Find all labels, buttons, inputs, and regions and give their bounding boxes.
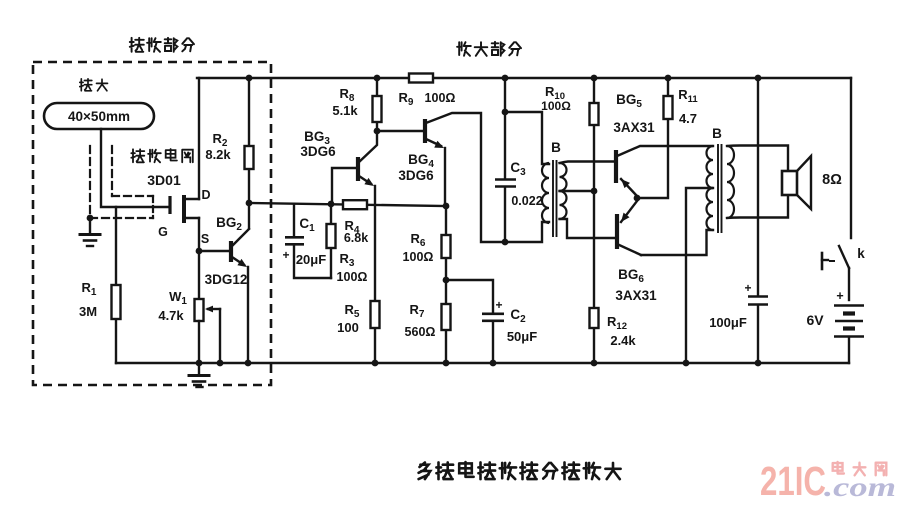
wire drain to top rail: [198, 78, 200, 199]
svg-text:2.4k: 2.4k: [610, 333, 636, 348]
wire R8 branch: [376, 78, 378, 131]
capacitor 100uF: [748, 295, 768, 298]
BG2 emitter diagonal: [232, 257, 244, 265]
FET source lead: [184, 217, 199, 219]
transistor FET 3D01 channel bar: [182, 195, 186, 223]
wire top supply rail: [197, 77, 851, 79]
svg-text:20μF: 20μF: [296, 252, 326, 267]
svg-text:50μF: 50μF: [507, 329, 537, 344]
node R10 top rail: [591, 75, 598, 82]
transformer B1 core: [552, 160, 554, 237]
transistor FET 3D01 gate bar: [168, 196, 171, 214]
svg-text:6.8k: 6.8k: [344, 231, 368, 245]
node R11 top rail: [665, 75, 672, 82]
node emitters junction: [634, 195, 641, 202]
resistor R9: [409, 74, 433, 83]
node ground rail junction: [490, 360, 497, 367]
capacitor C2: [446, 280, 493, 313]
wire BG2 base lead: [199, 250, 229, 252]
wire wiper to ground rail: [219, 309, 221, 363]
svg-text:D: D: [201, 188, 210, 202]
svg-text:100μF: 100μF: [709, 315, 747, 330]
resistor R3: [327, 224, 336, 248]
wire R3 branch: [330, 204, 332, 278]
capacitor C1: [293, 204, 295, 236]
svg-text:100: 100: [337, 320, 359, 335]
resistor R8: [373, 96, 382, 122]
resistor R11: [664, 96, 673, 119]
transformer B2 core: [717, 144, 719, 233]
resistor R1: [112, 285, 121, 319]
node shield ground junction: [87, 215, 94, 222]
wire B2 centre tap to rail: [686, 188, 713, 363]
svg-text:21IC: 21IC: [760, 458, 826, 504]
capacitor C3: [495, 178, 516, 181]
wire switch to battery: [848, 268, 850, 300]
svg-text:.com: .com: [824, 472, 896, 502]
probe plate 40x50mm: [44, 103, 154, 129]
wire right edge down to switch: [850, 78, 852, 238]
BG4 emitter diagonal: [426, 139, 441, 146]
wire C3 branch: [504, 78, 506, 179]
svg-text:4.7: 4.7: [679, 111, 697, 126]
wire secondary to speaker top: [727, 146, 788, 172]
wire BG2 emitter to rail: [247, 267, 249, 363]
wire bottom ground rail: [116, 362, 849, 364]
wire source down to potentiometer: [198, 218, 200, 299]
shield dashed line left: [89, 146, 91, 217]
svg-text:3DG6: 3DG6: [398, 168, 434, 183]
svg-text:+: +: [282, 248, 289, 262]
transistor BG5 base bar: [614, 150, 618, 183]
label jieshou bufen (receiving section): [130, 38, 194, 52]
svg-text:+: +: [744, 281, 751, 295]
transistor BG2 base bar: [229, 241, 233, 262]
label fangda bufen (amplifier section): [457, 42, 521, 56]
wire to transformer primary top: [505, 112, 549, 164]
wire R10 branch: [593, 78, 595, 191]
BG4 collector diagonal: [426, 113, 505, 242]
svg-text:8.2k: 8.2k: [205, 147, 231, 162]
svg-text:S: S: [201, 232, 209, 246]
wire R12 branch: [593, 191, 595, 363]
BG5 emitter diagonal: [621, 179, 637, 196]
wire BG3 emitter down through R5: [374, 186, 376, 363]
resistor R5: [371, 301, 380, 328]
receiving section dashed border: [33, 62, 271, 385]
svg-text:560Ω: 560Ω: [405, 325, 436, 339]
shield dashed right: [152, 196, 154, 218]
node ground rail junction: [591, 360, 598, 367]
resistor R6: [442, 235, 451, 258]
speaker 8 ohm: [782, 171, 797, 195]
node centre tap: [591, 188, 598, 195]
svg-text:3AX31: 3AX31: [613, 120, 655, 135]
wire secondary top to BG5 base: [560, 162, 615, 164]
node R2 top rail: [246, 75, 253, 82]
ground shield: [89, 218, 91, 234]
wire probe to FET gate: [101, 129, 168, 207]
FET drain lead: [184, 198, 199, 200]
wire secondary centre tap: [560, 190, 595, 192]
svg-text:100Ω: 100Ω: [403, 250, 434, 264]
shield dashed top: [112, 195, 153, 197]
battery 6V: [834, 304, 864, 307]
node C3 tap: [502, 109, 509, 116]
wire BG3 base riser: [332, 168, 356, 204]
svg-text:40×50mm: 40×50mm: [68, 109, 130, 124]
node R8 top: [374, 75, 381, 82]
wire BG4 base: [377, 130, 423, 132]
svg-text:4.7k: 4.7k: [158, 308, 184, 323]
node C3 bottom: [502, 239, 509, 246]
transistor BG3 base bar: [356, 157, 360, 181]
resistor R12: [590, 308, 599, 328]
node R8 bottom BG4 base: [374, 128, 381, 135]
BG3 emitter diagonal: [359, 176, 371, 184]
transistor BG4 base bar: [423, 119, 427, 143]
node BG2 collector output: [246, 200, 253, 207]
svg-text:100Ω: 100Ω: [541, 99, 571, 113]
node BG3 base node: [328, 201, 335, 208]
svg-text:+: +: [836, 289, 843, 303]
node C3 top rail: [502, 75, 509, 82]
label tantou (probe): [80, 79, 108, 91]
node ground rail junction: [372, 360, 379, 367]
wire R6 R7 branch: [445, 206, 447, 363]
wire R2 branch / BG2 collector: [248, 78, 250, 228]
svg-text:5.1k: 5.1k: [332, 103, 358, 118]
W1 wiper arm: [208, 308, 220, 310]
potentiometer W1: [195, 299, 204, 321]
svg-text:+: +: [495, 298, 502, 312]
resistor R2: [245, 146, 254, 169]
node ground rail junction: [443, 360, 450, 367]
wire BG4 emitter down: [444, 148, 446, 206]
svg-text:6V: 6V: [806, 312, 824, 328]
label logo dianziwang: [833, 462, 887, 475]
wire R11 branch: [637, 78, 668, 198]
wire R1 branch: [115, 207, 117, 363]
ground bottom rail: [198, 363, 200, 375]
svg-text:100Ω: 100Ω: [337, 270, 368, 284]
node ground rail junction: [755, 360, 762, 367]
transformer B2 secondary: [727, 146, 734, 218]
transformer B2 primary upper: [707, 146, 713, 188]
BG5 collector diagonal: [617, 146, 713, 156]
transformer B1 secondary upper: [560, 163, 567, 191]
resistor R7: [442, 304, 451, 330]
transformer B1 primary winding: [542, 163, 549, 223]
svg-text:3DG12: 3DG12: [205, 272, 248, 287]
BG6 emitter diagonal: [621, 201, 637, 222]
wire secondary to speaker bottom: [727, 195, 788, 218]
label caption duoxin dianlan duanxian dian jiance yi: [419, 462, 621, 479]
node ground rail junction: [196, 360, 203, 367]
wire primary bottom: [505, 222, 549, 242]
svg-text:8Ω: 8Ω: [822, 172, 842, 188]
switch K contact: [821, 253, 824, 269]
label changxiaoyingguan (FET): [131, 149, 193, 162]
transformer B1 secondary lower: [560, 191, 567, 219]
wire B2 primary bottom lead: [641, 230, 713, 255]
svg-text:k: k: [857, 246, 865, 261]
node ground rail junction: [217, 360, 224, 367]
svg-text:3DG6: 3DG6: [300, 144, 336, 159]
BG6 collector diagonal: [617, 244, 641, 255]
svg-text:3D01: 3D01: [147, 172, 181, 188]
node source-base junction: [196, 248, 203, 255]
svg-text:100Ω: 100Ω: [425, 91, 456, 105]
svg-text:B: B: [712, 126, 722, 141]
node 100uF top rail: [755, 75, 762, 82]
resistor R4: [343, 200, 367, 209]
node ground rail junction: [683, 360, 690, 367]
svg-text:G: G: [158, 225, 168, 239]
svg-text:0.022: 0.022: [511, 194, 542, 208]
BG3 collector diagonal: [359, 131, 377, 162]
resistor R10: [590, 103, 599, 125]
wire 100uF branch: [757, 78, 759, 296]
transistor BG6 base bar: [615, 214, 619, 249]
wire secondary bottom to BG6 base: [560, 219, 616, 238]
switch K blade: [839, 246, 849, 268]
transformer B2 primary lower: [707, 188, 713, 230]
wire W1 bottom to rail: [198, 321, 200, 363]
node ground rail junction: [245, 360, 252, 367]
svg-text:3M: 3M: [79, 304, 97, 319]
svg-text:B: B: [551, 140, 561, 155]
wire BG2 collector to BG3 base node: [249, 203, 446, 206]
svg-text:3AX31: 3AX31: [615, 288, 657, 303]
BG2 collector diagonal: [232, 229, 249, 246]
shield dashed line inner: [111, 146, 113, 196]
shield dashed bottom: [90, 217, 153, 219]
node BG4 emitter node: [443, 203, 450, 210]
node R6 bottom: [443, 277, 450, 284]
